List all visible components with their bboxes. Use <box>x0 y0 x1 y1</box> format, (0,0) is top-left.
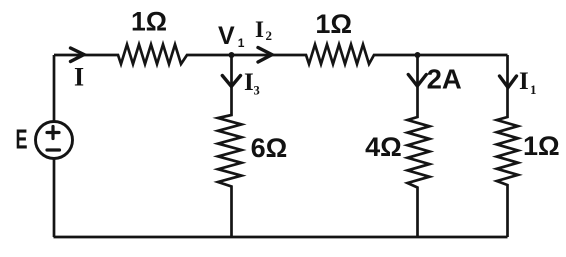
svg-text:V: V <box>218 22 235 50</box>
svg-text:4Ω: 4Ω <box>365 132 402 162</box>
svg-text:E: E <box>16 124 28 155</box>
svg-text:1Ω: 1Ω <box>131 7 167 37</box>
svg-text:I: I <box>519 68 529 95</box>
svg-text:2A: 2A <box>427 64 462 95</box>
svg-text:I: I <box>74 63 84 92</box>
svg-text:1Ω: 1Ω <box>523 131 560 161</box>
svg-text:1Ω: 1Ω <box>315 9 352 39</box>
svg-text:I: I <box>255 17 264 42</box>
svg-text:I: I <box>244 69 254 96</box>
svg-text:1: 1 <box>530 82 537 97</box>
svg-text:3: 3 <box>254 84 260 98</box>
svg-text:6Ω: 6Ω <box>251 133 288 163</box>
svg-text:1: 1 <box>238 36 245 50</box>
svg-text:2: 2 <box>266 28 273 43</box>
